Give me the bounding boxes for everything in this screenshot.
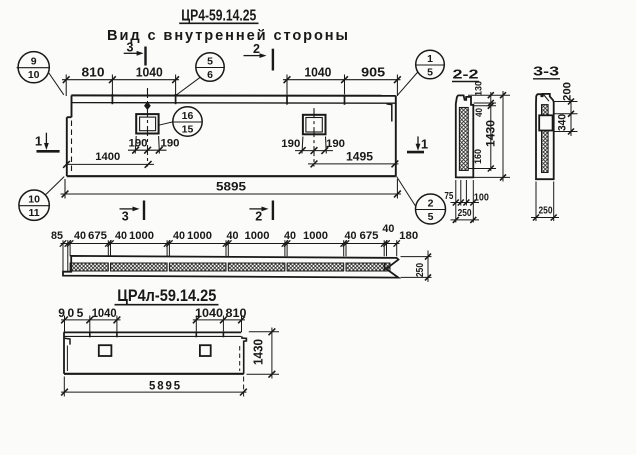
- opening 2 inner: [306, 118, 322, 133]
- svg-text:250: 250: [458, 208, 472, 219]
- callout circle 1/5: [416, 50, 445, 79]
- panel left edge lower: [66, 117, 68, 176]
- svg-text:2-2: 2-2: [453, 68, 479, 82]
- svg-text:1000: 1000: [129, 230, 154, 242]
- svg-text:16: 16: [182, 110, 194, 122]
- svg-text:40: 40: [284, 230, 296, 242]
- opening 1 dim line 190 190: [128, 149, 167, 151]
- strip outline: [63, 256, 398, 278]
- panel left edge upper: [71, 95, 73, 117]
- svg-text:40: 40: [227, 230, 239, 242]
- svg-text:250: 250: [414, 263, 426, 277]
- svg-text:160: 160: [473, 149, 484, 164]
- bottom panel flange bottom: [64, 335, 242, 337]
- svg-text:2: 2: [428, 198, 434, 210]
- panel right inner notch: [387, 104, 392, 122]
- svg-text:6: 6: [207, 69, 213, 81]
- bottom panel opening 1: [99, 345, 112, 356]
- bottom panel opening 2: [200, 345, 211, 356]
- opening 2 dim line 190 190: [295, 150, 333, 152]
- dim line 1400: [67, 163, 155, 165]
- svg-text:905: 905: [361, 64, 385, 79]
- svg-text:5: 5: [428, 211, 434, 223]
- svg-text:1000: 1000: [245, 230, 270, 242]
- svg-text:1040: 1040: [195, 306, 223, 320]
- svg-text:40: 40: [382, 223, 394, 235]
- section 2-2 dim line 250: [451, 219, 480, 221]
- strip dim chain ext lines: [69, 240, 71, 256]
- strip dim line 250: [427, 251, 429, 283]
- section 3-3 right ext lines: [554, 101, 577, 103]
- section mark 3 (bottom): [120, 208, 134, 210]
- svg-text:9: 9: [31, 56, 37, 68]
- svg-text:40: 40: [173, 230, 185, 242]
- panel left inner dashed line: [71, 121, 73, 175]
- extension lines top dims: [65, 75, 67, 97]
- svg-text:340: 340: [557, 114, 569, 131]
- svg-text:1040: 1040: [92, 306, 117, 320]
- svg-text:ЦР4-59.14.25: ЦР4-59.14.25: [181, 8, 256, 25]
- opening 1 inner: [140, 117, 156, 131]
- section 3-3 dim line: [570, 100, 572, 137]
- panel right edge: [395, 96, 397, 176]
- section 3-3 hatch lower: [542, 131, 549, 173]
- bottom panel left edge: [63, 332, 65, 373]
- leader 9/10: [49, 73, 64, 95]
- section 2-2 right ext lines: [468, 94, 510, 96]
- svg-text:40: 40: [115, 230, 127, 242]
- section 3-3 tab inner diagonal: [544, 95, 549, 102]
- svg-text:5895: 5895: [216, 180, 246, 194]
- svg-text:3: 3: [122, 210, 129, 224]
- section 2-2 outer dim line: [502, 91, 504, 182]
- leader 10/11: [46, 177, 64, 195]
- dim line 1040+905 (right): [283, 79, 401, 81]
- bottom panel flange joint marks: [89, 331, 91, 337]
- dim line 810+1040 (left): [62, 79, 179, 81]
- svg-text:250: 250: [539, 206, 553, 217]
- svg-text:11: 11: [29, 207, 40, 219]
- ext lines 5895: [64, 179, 66, 199]
- svg-text:3: 3: [127, 40, 134, 54]
- svg-text:Вид с внутренней стороны: Вид с внутренней стороны: [107, 28, 348, 44]
- svg-text:675: 675: [360, 230, 379, 242]
- section 3-3 dim line 250: [531, 217, 559, 219]
- svg-text:15: 15: [182, 124, 194, 136]
- svg-text:130: 130: [474, 81, 485, 96]
- svg-text:40: 40: [345, 230, 357, 242]
- svg-text:1430: 1430: [484, 120, 498, 147]
- leader 5/6: [176, 77, 200, 95]
- svg-text:1: 1: [421, 137, 428, 152]
- leader 16/15: [159, 122, 173, 125]
- panel strip joint marks: [111, 94, 113, 104]
- bottom panel right tab: [242, 336, 247, 373]
- dim line 1495: [308, 163, 399, 165]
- section 2-2 bottom ext lines: [455, 180, 457, 223]
- centerline diamond marker: [144, 102, 151, 110]
- opening 2 centerline: [313, 108, 315, 166]
- svg-text:1400: 1400: [95, 151, 120, 163]
- leader 2/5: [397, 176, 416, 206]
- svg-text:10: 10: [28, 194, 40, 206]
- svg-text:5895: 5895: [149, 378, 182, 392]
- opening 2 dim ext lines: [301, 137, 304, 154]
- svg-text:810: 810: [82, 64, 105, 79]
- panel bottom edge: [67, 175, 396, 177]
- section 3-3 bottom ext lines: [535, 182, 537, 222]
- svg-text:40: 40: [74, 230, 86, 242]
- svg-text:1040: 1040: [136, 64, 163, 79]
- svg-text:190: 190: [281, 138, 300, 150]
- node mark 1 (right): [417, 136, 419, 145]
- strip dim chain line: [61, 243, 400, 245]
- svg-text:190: 190: [326, 138, 345, 150]
- callout circle 5/6: [196, 53, 224, 81]
- svg-text:905: 905: [58, 306, 83, 320]
- svg-text:1495: 1495: [346, 150, 373, 164]
- svg-text:675: 675: [88, 230, 107, 242]
- bottom panel left notch: [65, 338, 70, 344]
- svg-text:1040: 1040: [304, 64, 331, 79]
- svg-text:190: 190: [161, 138, 180, 150]
- svg-text:190: 190: [129, 138, 148, 150]
- opening 1 outer: [136, 114, 158, 133]
- svg-text:75: 75: [444, 191, 453, 202]
- callout circle 16/15: [173, 107, 202, 136]
- section 2-2 dim line 75/100: [451, 202, 480, 204]
- svg-text:5: 5: [207, 56, 213, 68]
- svg-text:200: 200: [562, 82, 574, 101]
- panel top edge: [71, 94, 396, 96]
- svg-text:1000: 1000: [187, 230, 212, 242]
- bottom panel dim line 1430: [271, 328, 273, 379]
- strip insulation hatch segments: [70, 263, 108, 271]
- section 3-3 outline: [536, 94, 554, 179]
- bottom panel 5895 ext lines: [63, 377, 65, 397]
- svg-text:5: 5: [427, 67, 433, 79]
- bottom panel dim line right: [193, 319, 245, 321]
- bottom panel 1430 ext lines: [249, 331, 279, 333]
- panel top strip bottom line: [71, 102, 396, 105]
- bottom panel dim line 5895: [61, 391, 247, 393]
- svg-text:810: 810: [226, 306, 247, 320]
- svg-text:1000: 1000: [303, 230, 328, 242]
- svg-text:10: 10: [28, 69, 40, 81]
- dim line 5895: [61, 193, 402, 195]
- svg-text:2: 2: [253, 42, 260, 56]
- section 3-3 hatch upper: [542, 105, 549, 116]
- svg-text:180: 180: [399, 230, 418, 242]
- section 2-2 insulation hatch: [459, 108, 468, 171]
- svg-text:1430: 1430: [252, 339, 266, 365]
- leader 1/5: [397, 72, 418, 96]
- section 2-2 outline: [456, 95, 474, 177]
- section 2-2 inner dim line: [490, 92, 492, 171]
- svg-text:1: 1: [427, 53, 433, 65]
- bottom panel dim ext lines: [64, 316, 66, 333]
- bottom panel bottom edge: [64, 373, 244, 375]
- callout circle 2/5: [416, 194, 446, 224]
- svg-text:2: 2: [255, 210, 262, 224]
- section mark 2 (bottom): [249, 208, 263, 210]
- section 3-3 opening (hole): [539, 115, 552, 130]
- svg-text:ЦР4л-59.14.25: ЦР4л-59.14.25: [117, 287, 216, 305]
- svg-text:40: 40: [474, 108, 485, 117]
- callout circle 10/11: [19, 190, 49, 220]
- bottom panel dim line left: [61, 319, 121, 321]
- svg-text:1: 1: [35, 134, 42, 149]
- svg-text:85: 85: [51, 230, 63, 242]
- strip 250 ext lines: [401, 256, 432, 258]
- opening 2 outer: [303, 115, 326, 135]
- panel left notch step: [67, 116, 72, 118]
- opening 1 centerline: [147, 88, 149, 167]
- bottom panel flange top: [64, 331, 242, 333]
- svg-text:3-3: 3-3: [533, 65, 559, 79]
- opening 1 dim ext lines: [135, 136, 136, 154]
- svg-text:100: 100: [474, 192, 489, 203]
- bottom panel right dashed line: [239, 346, 241, 371]
- callout circle 9/10: [18, 52, 49, 83]
